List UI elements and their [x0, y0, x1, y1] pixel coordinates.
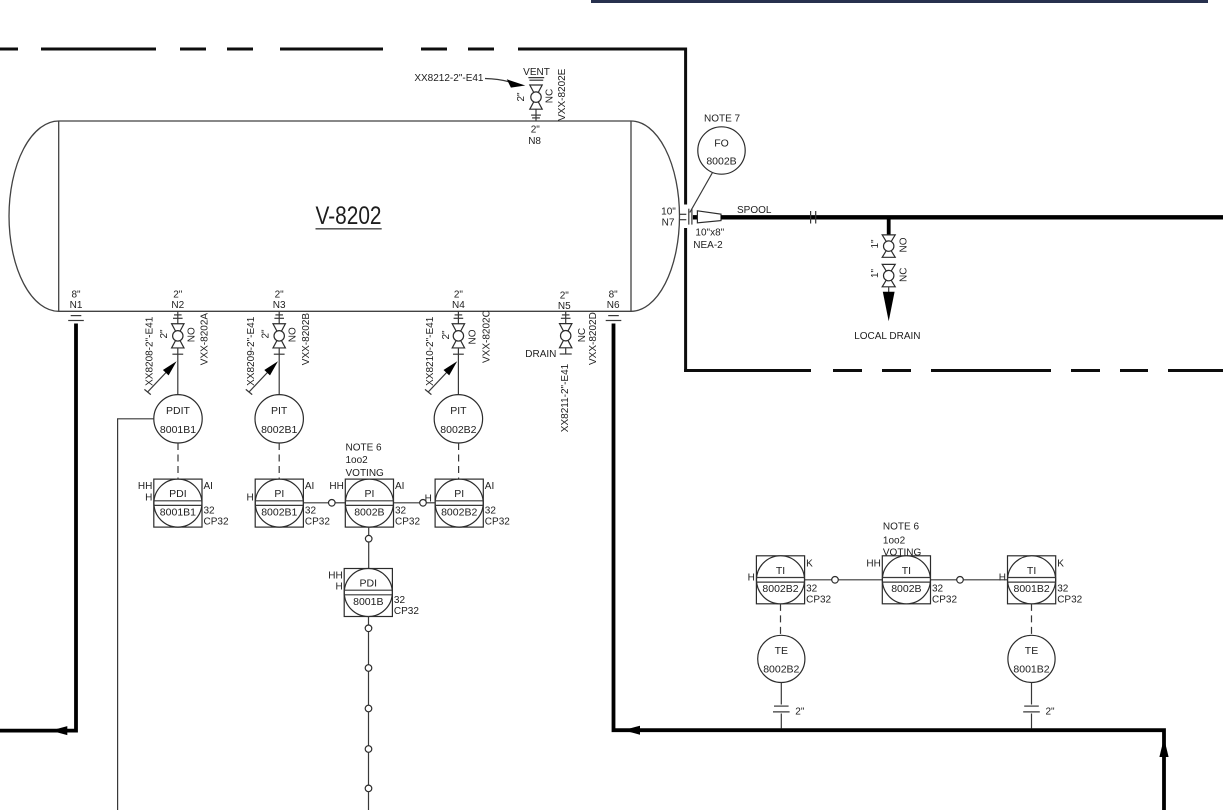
svg-text:TI: TI: [776, 565, 785, 577]
battery limit boundary vertical upper segment: [684, 48, 687, 205]
svg-text:VXX-8202E: VXX-8202E: [557, 68, 568, 121]
svg-text:1": 1": [870, 239, 881, 249]
svg-text:N1: N1: [70, 300, 83, 311]
nozzle N7 stub: [680, 213, 687, 215]
svg-text:N2: N2: [171, 300, 184, 311]
svg-text:AI: AI: [204, 481, 213, 492]
instrument PI 8002B shared display: [345, 479, 393, 527]
instrument PDI 8001B1 shared display: [154, 479, 202, 527]
pipe spool line: [721, 215, 1223, 219]
svg-text:NO: NO: [288, 327, 299, 342]
nozzle N4 flange: [457, 311, 459, 323]
svg-text:XX8211-2"-E41: XX8211-2"-E41: [560, 363, 571, 432]
nozzle N1 flange: [71, 315, 82, 317]
svg-text:HH: HH: [329, 481, 343, 492]
svg-text:H: H: [246, 493, 253, 504]
signal dashed PIT 8002B2 to PI 8002B2: [458, 443, 460, 479]
svg-text:32: 32: [1057, 584, 1069, 595]
signal line from PDIT 8001B1 to left and down: [118, 419, 154, 810]
spool break flanges: [810, 211, 812, 224]
svg-text:2": 2": [173, 290, 183, 301]
vessel V-8202 shell: [9, 121, 679, 311]
instrument TE 8002B2 bubble: [758, 635, 805, 682]
svg-text:N3: N3: [273, 300, 286, 311]
svg-text:2": 2": [454, 290, 464, 301]
svg-text:2": 2": [275, 290, 285, 301]
svg-text:2": 2": [260, 329, 271, 339]
signal dashed PIT 8002B1 to PI 8002B1: [278, 443, 280, 479]
nozzle N6 flange: [608, 315, 619, 317]
nozzle N8 stub: [535, 109, 537, 121]
instrument TI 8002B2 shared display: [756, 556, 804, 604]
reducer NEA-2 10"x8": [697, 211, 721, 223]
instrument PDIT 8001B1 bubble: [154, 395, 202, 443]
svg-text:NC: NC: [577, 328, 588, 342]
svg-text:8002B2: 8002B2: [441, 507, 477, 519]
svg-text:HH: HH: [328, 571, 342, 582]
line below valve VXX-8202A: [177, 348, 179, 394]
svg-text:V-8202: V-8202: [316, 202, 382, 230]
flow arrow on bottom header pointing left: [623, 726, 640, 735]
svg-text:8002B: 8002B: [891, 583, 921, 595]
voting link PI 8002B to PI 8002B2: [394, 502, 420, 504]
signal dashed TI 8001B2 to TE 8001B2: [1031, 604, 1033, 635]
nozzle N3 flange: [278, 311, 280, 323]
software link chain below PDI 8001B: [368, 617, 370, 626]
svg-text:PIT: PIT: [271, 405, 288, 417]
svg-text:N5: N5: [558, 301, 571, 312]
svg-text:32: 32: [806, 584, 818, 595]
voting link PI 8002B1 to PI 8002B: [303, 502, 328, 504]
svg-text:XX8209-2"-E41: XX8209-2"-E41: [246, 316, 257, 386]
svg-text:8001B2: 8001B2: [1013, 664, 1049, 676]
battery limit boundary vertical lower segment: [684, 228, 687, 372]
svg-text:1oo2: 1oo2: [346, 455, 369, 466]
svg-text:TE: TE: [775, 645, 788, 657]
flow arrow up at bottom right: [1159, 738, 1168, 757]
instrument PI 8002B1 shared display: [255, 479, 303, 527]
voting link TI 8002B to TI 8001B2: [931, 579, 957, 581]
svg-text:N4: N4: [452, 300, 465, 311]
signal dashed PDIT to PDI: [177, 443, 179, 479]
line below valve VXX-8202B: [278, 348, 280, 395]
decorative top bar: [591, 0, 1208, 3]
svg-text:2": 2": [441, 330, 452, 340]
valve 1" NO: [882, 235, 895, 257]
svg-text:CP32: CP32: [806, 594, 831, 605]
nozzle N7 flange pair: [688, 209, 690, 225]
instrument TE 8001B2 bubble: [1008, 635, 1055, 682]
signal dashed TI 8002B2 to TE 8002B2: [780, 604, 782, 635]
svg-text:NOTE 6: NOTE 6: [883, 521, 920, 532]
svg-text:LOCAL DRAIN: LOCAL DRAIN: [854, 331, 920, 342]
svg-text:TI: TI: [1027, 565, 1036, 577]
software link PI 8002B to PDI 8001B: [368, 527, 370, 535]
svg-text:CP32: CP32: [395, 516, 420, 527]
svg-text:2": 2": [159, 329, 170, 339]
svg-text:32: 32: [485, 506, 497, 517]
svg-text:VOTING: VOTING: [883, 548, 922, 559]
valve VXX-8202D drain valve: [560, 324, 572, 348]
svg-text:8001B: 8001B: [353, 596, 383, 608]
pipe from N1 to left battery limit with flow arrow: [0, 324, 76, 731]
svg-text:DRAIN: DRAIN: [525, 349, 556, 360]
svg-text:CP32: CP32: [932, 594, 957, 605]
svg-text:VOTING: VOTING: [346, 468, 385, 479]
svg-text:8": 8": [609, 290, 619, 301]
svg-text:8002B2: 8002B2: [762, 583, 798, 595]
svg-text:H: H: [748, 573, 755, 584]
TE 8002B2 thermowell connection: [780, 683, 782, 705]
svg-text:PI: PI: [274, 488, 284, 500]
svg-text:HH: HH: [138, 481, 152, 492]
line below valve VXX-8202C: [457, 348, 459, 395]
svg-text:K: K: [1057, 559, 1064, 570]
svg-text:XX8210-2"-E41: XX8210-2"-E41: [425, 316, 436, 386]
svg-text:N8: N8: [528, 136, 541, 147]
svg-text:2": 2": [516, 92, 527, 102]
svg-text:PDI: PDI: [169, 488, 187, 500]
svg-text:8002B: 8002B: [354, 507, 384, 519]
svg-text:NOTE 6: NOTE 6: [346, 442, 383, 453]
vessel right tangent seam: [630, 121, 632, 311]
pipe from N6 down to bottom header: [614, 324, 1165, 810]
svg-text:PI: PI: [454, 488, 464, 500]
svg-text:10": 10": [661, 207, 676, 218]
svg-text:PI: PI: [364, 488, 374, 500]
svg-text:XX8208-2"-E41: XX8208-2"-E41: [145, 316, 156, 386]
svg-text:HH: HH: [866, 559, 880, 570]
svg-text:AI: AI: [485, 481, 494, 492]
svg-text:8002B: 8002B: [706, 156, 736, 168]
svg-text:NC: NC: [545, 89, 556, 103]
svg-text:FO: FO: [714, 137, 729, 149]
svg-text:NC: NC: [898, 268, 909, 282]
svg-text:32: 32: [932, 584, 944, 595]
svg-text:SPOOL: SPOOL: [737, 205, 772, 216]
svg-text:10"x8": 10"x8": [695, 228, 724, 239]
drain branch pipe: [887, 219, 891, 235]
svg-text:PDI: PDI: [360, 578, 378, 590]
svg-text:8001B1: 8001B1: [160, 507, 196, 519]
svg-text:VENT: VENT: [523, 67, 550, 78]
svg-text:8001B2: 8001B2: [1013, 583, 1049, 595]
svg-text:8001B1: 8001B1: [160, 424, 196, 436]
svg-text:8": 8": [71, 290, 81, 301]
svg-text:2": 2": [531, 125, 541, 136]
svg-text:K: K: [806, 559, 813, 570]
svg-text:CP32: CP32: [485, 516, 510, 527]
svg-text:1oo2: 1oo2: [883, 535, 906, 546]
svg-text:PIT: PIT: [450, 405, 467, 417]
FO leader line: [690, 173, 713, 213]
valve VXX-8202A: [172, 324, 184, 348]
svg-text:N7: N7: [662, 218, 675, 229]
line below valve VXX-8202D: [565, 347, 567, 354]
svg-text:NO: NO: [467, 329, 478, 344]
svg-text:8002B2: 8002B2: [763, 664, 799, 676]
svg-text:32: 32: [395, 506, 407, 517]
svg-text:8002B2: 8002B2: [440, 424, 476, 436]
svg-text:NOTE 7: NOTE 7: [704, 114, 741, 125]
instrument TI 8001B2 shared display: [1008, 556, 1056, 604]
svg-text:32: 32: [305, 506, 317, 517]
nozzle N2 flange: [177, 311, 179, 323]
instrument leader arrow N4: [428, 368, 451, 392]
svg-text:AI: AI: [395, 481, 404, 492]
svg-text:8002B1: 8002B1: [261, 424, 297, 436]
svg-text:N6: N6: [607, 300, 620, 311]
svg-text:CP32: CP32: [1057, 594, 1082, 605]
instrument PI 8002B2 shared display: [435, 479, 483, 527]
svg-text:2": 2": [1046, 707, 1056, 718]
svg-text:VXX-8202B: VXX-8202B: [301, 313, 312, 366]
svg-text:32: 32: [204, 506, 216, 517]
svg-text:H: H: [335, 582, 342, 593]
TE 8001B2 thermowell connection: [1031, 683, 1033, 705]
battery limit boundary top (dash pattern): [0, 48, 18, 51]
pipe stub to reducer: [693, 215, 698, 219]
svg-text:32: 32: [394, 595, 406, 606]
svg-text:VXX-8202D: VXX-8202D: [588, 312, 599, 365]
svg-text:8002B1: 8002B1: [261, 507, 297, 519]
instrument FO 8002B restriction orifice bubble: [698, 127, 745, 174]
instrument PIT 8002B2 bubble: [434, 395, 482, 443]
vessel left tangent seam: [58, 121, 60, 311]
instrument PIT 8002B1 bubble: [255, 395, 303, 443]
svg-text:NO: NO: [186, 327, 197, 342]
instrument leader arrow N2: [148, 368, 171, 392]
svg-text:CP32: CP32: [305, 516, 330, 527]
valve VXX-8202C: [452, 324, 464, 348]
voting link TI 8002B2 to TI 8002B: [805, 579, 832, 581]
svg-text:XX8212-2"-E41: XX8212-2"-E41: [414, 73, 484, 84]
svg-text:2": 2": [795, 707, 805, 718]
instrument PDI 8001B shared display: [344, 569, 392, 617]
svg-text:H: H: [999, 573, 1006, 584]
svg-text:CP32: CP32: [204, 516, 229, 527]
battery limit boundary right (dash pattern): [684, 369, 811, 372]
valve 1" NC: [882, 264, 895, 286]
svg-text:H: H: [145, 492, 152, 503]
svg-text:PDIT: PDIT: [166, 405, 191, 417]
instrument leader arrow N3: [249, 368, 272, 392]
drain outlet arrow: [888, 287, 890, 294]
svg-text:NO: NO: [898, 237, 909, 252]
svg-text:TI: TI: [902, 565, 911, 577]
svg-text:1": 1": [870, 268, 881, 278]
svg-text:AI: AI: [305, 481, 314, 492]
svg-text:TE: TE: [1025, 645, 1038, 657]
svg-text:CP32: CP32: [394, 606, 419, 617]
instrument TI 8002B shared display: [882, 556, 930, 604]
svg-text:VXX-8202A: VXX-8202A: [200, 313, 211, 366]
valve VXX-8202E vent valve: [530, 85, 542, 109]
nozzle N5 flange: [565, 311, 567, 323]
svg-text:VXX-8202C: VXX-8202C: [481, 310, 492, 363]
svg-text:NEA-2: NEA-2: [693, 240, 723, 251]
valve VXX-8202B: [273, 324, 285, 348]
